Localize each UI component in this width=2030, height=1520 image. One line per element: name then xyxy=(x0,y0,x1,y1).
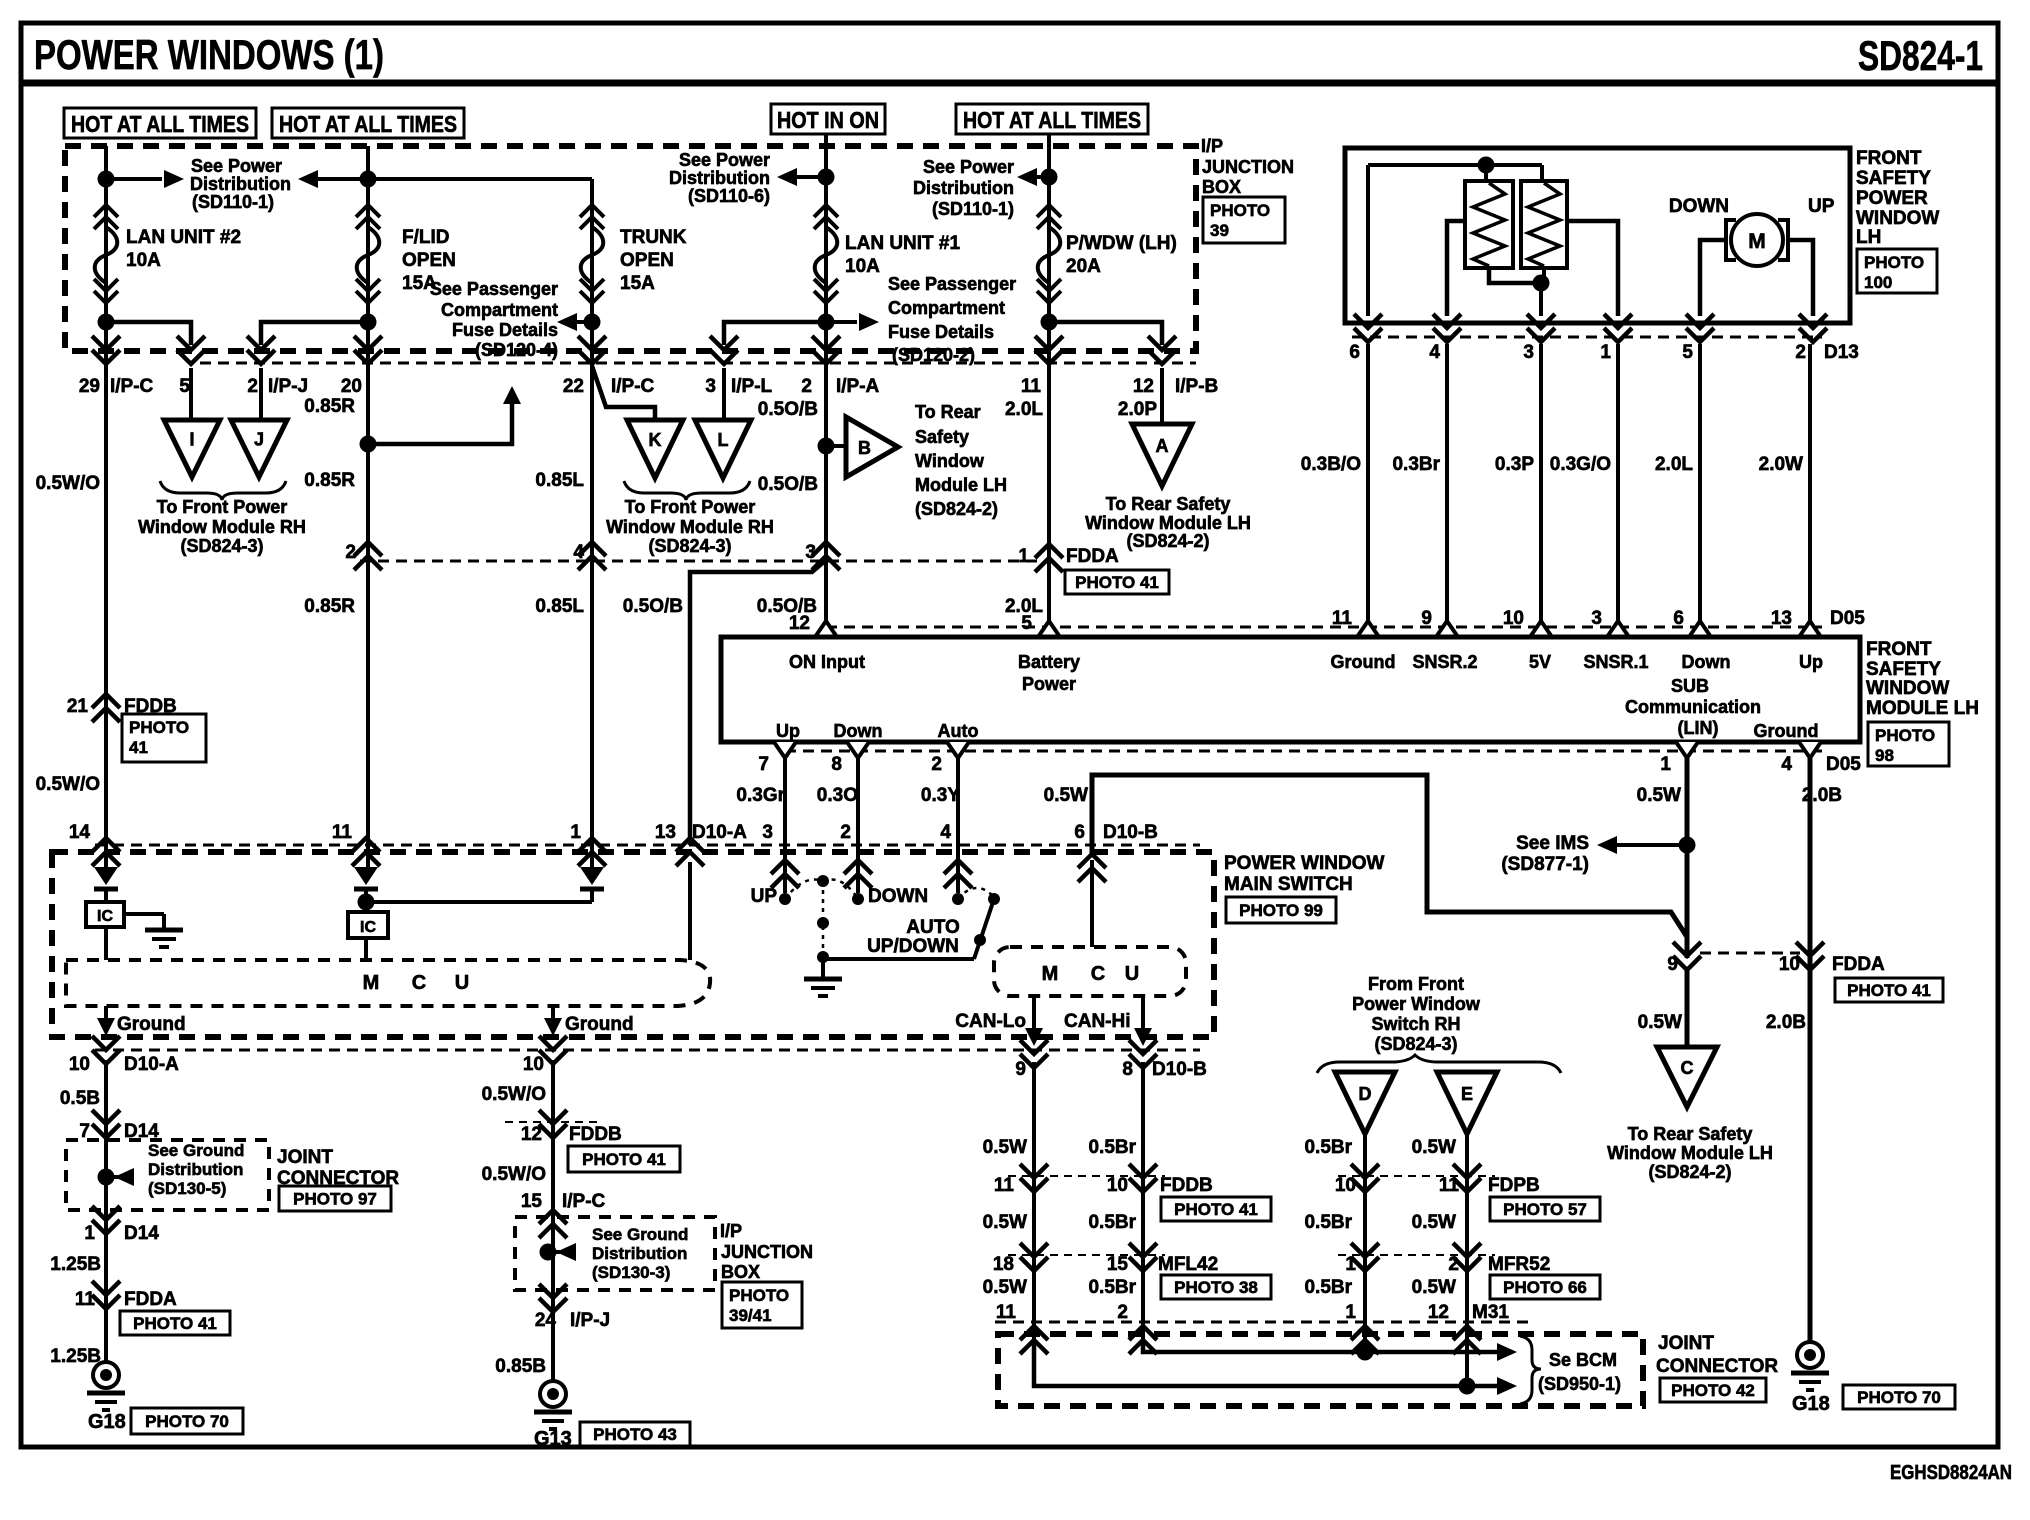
svg-text:Ground: Ground xyxy=(565,1014,634,1035)
svg-text:10: 10 xyxy=(523,1054,544,1075)
tap wire to pin 4 xyxy=(1447,221,1465,316)
svg-text:TRUNK: TRUNK xyxy=(620,227,687,248)
svg-text:L: L xyxy=(718,430,729,450)
svg-text:Module LH: Module LH xyxy=(915,475,1007,495)
ground wire mid xyxy=(551,1006,555,1030)
node IC junction xyxy=(358,894,375,911)
svg-text:10: 10 xyxy=(1335,1175,1356,1196)
wire LAN UNIT #2 feed xyxy=(104,146,108,867)
triangle C connector xyxy=(1657,1047,1717,1107)
svg-text:FDDB: FDDB xyxy=(1160,1175,1213,1196)
switch contacts xyxy=(779,893,791,905)
svg-text:SNSR.2: SNSR.2 xyxy=(1412,652,1477,672)
svg-text:Safety: Safety xyxy=(915,427,969,447)
I/P junction box bottom dashed xyxy=(515,1217,715,1290)
connector pin 20 chevron xyxy=(354,336,382,364)
svg-text:18: 18 xyxy=(993,1254,1014,1275)
auto lever xyxy=(974,899,994,959)
svg-text:Ground: Ground xyxy=(1754,721,1819,741)
svg-text:6: 6 xyxy=(1673,608,1684,629)
svg-text:FDDB: FDDB xyxy=(569,1124,622,1145)
MCU box (main switch) dashed xyxy=(994,947,1186,996)
svg-text:0.3O: 0.3O xyxy=(817,785,858,806)
resistor pack 1 xyxy=(1465,181,1513,268)
svg-text:E: E xyxy=(1461,1084,1473,1104)
svg-text:0.5W: 0.5W xyxy=(983,1212,1027,1233)
svg-text:MFL42: MFL42 xyxy=(1158,1254,1218,1275)
module top pin chevrons xyxy=(815,621,837,637)
svg-text:To Rear Safety: To Rear Safety xyxy=(1106,494,1231,514)
triangle E connector xyxy=(1437,1072,1497,1134)
svg-text:0.5Br: 0.5Br xyxy=(1304,1137,1352,1158)
svg-text:SUB: SUB xyxy=(1671,676,1709,696)
label box HOT AT ALL TIMES #2 xyxy=(272,108,464,138)
svg-text:UP: UP xyxy=(751,886,778,907)
wires module to main switch xyxy=(783,757,787,893)
wire jog to D10-A pin 13 xyxy=(690,560,826,845)
wire branch to pin 12 I/P-B xyxy=(1049,322,1162,345)
svg-text:ON Input: ON Input xyxy=(789,652,865,672)
svg-text:39: 39 xyxy=(1210,221,1229,240)
svg-text:D10-A: D10-A xyxy=(124,1054,179,1075)
svg-text:3: 3 xyxy=(1523,342,1534,363)
triangle B connector (points right) xyxy=(846,417,898,477)
svg-text:3: 3 xyxy=(762,822,773,843)
label box HOT AT ALL TIMES #1 xyxy=(64,108,256,138)
ground wire left xyxy=(104,1006,108,1030)
connector pin 22 I/P-C chevron xyxy=(578,336,606,364)
wire LAN UNIT #1 feed xyxy=(824,134,828,637)
svg-text:15: 15 xyxy=(1107,1254,1129,1275)
node R1 xyxy=(1478,157,1495,174)
svg-text:2: 2 xyxy=(1448,1254,1459,1275)
svg-text:CONNECTOR: CONNECTOR xyxy=(1656,1356,1778,1377)
wire branch to pin 3 I/P-L xyxy=(724,322,826,345)
svg-text:1.25B: 1.25B xyxy=(50,1254,101,1275)
svg-text:0.5W/O: 0.5W/O xyxy=(36,774,100,795)
svg-text:B: B xyxy=(858,438,871,458)
svg-text:D10-A: D10-A xyxy=(692,822,747,843)
svg-text:3: 3 xyxy=(705,376,716,397)
svg-text:11: 11 xyxy=(1439,1175,1460,1196)
svg-text:0.5W: 0.5W xyxy=(1638,1012,1682,1033)
thin dashed line y=1050 xyxy=(95,1049,1200,1052)
svg-text:0.3Gr: 0.3Gr xyxy=(736,785,785,806)
svg-text:PHOTO 66: PHOTO 66 xyxy=(1503,1278,1587,1297)
svg-text:2: 2 xyxy=(247,376,258,397)
svg-text:22: 22 xyxy=(563,376,584,397)
D14 ground distribution dashed box xyxy=(66,1140,269,1210)
D13 pin chevrons xyxy=(1354,314,1382,342)
node ground dist junction xyxy=(540,1244,557,1261)
motor M xyxy=(1731,214,1783,266)
svg-text:See Passenger: See Passenger xyxy=(888,274,1016,294)
svg-text:10: 10 xyxy=(1779,954,1800,975)
wire pin3 to triangle L xyxy=(722,368,726,420)
svg-text:I/P-J: I/P-J xyxy=(268,376,308,397)
PHOTO 43 box xyxy=(580,1422,690,1446)
svg-text:0.5W: 0.5W xyxy=(1637,785,1681,806)
svg-text:2: 2 xyxy=(801,376,812,397)
thin dashed connector line D10-A / D10-B xyxy=(95,844,1200,847)
loop wire pin6 D10-B to FDDA 9 xyxy=(1092,775,1687,937)
svg-text:0.5W/O: 0.5W/O xyxy=(482,1084,546,1105)
pole to ground xyxy=(821,957,825,977)
svg-text:4: 4 xyxy=(1781,754,1792,775)
svg-text:JUNCTION: JUNCTION xyxy=(721,1242,813,1262)
svg-text:21: 21 xyxy=(67,696,89,717)
fuse LAN UNIT #2 10A xyxy=(94,205,118,229)
svg-text:D: D xyxy=(1359,1084,1372,1104)
connector pin 21 FDDB chevron xyxy=(92,694,120,722)
svg-text:WINDOW: WINDOW xyxy=(1856,208,1939,229)
svg-text:0.5W: 0.5W xyxy=(1412,1212,1456,1233)
svg-text:HOT AT ALL TIMES: HOT AT ALL TIMES xyxy=(963,107,1141,133)
wires below diodes xyxy=(104,887,108,902)
connector 15 I/P-C chevron up xyxy=(539,1210,567,1238)
svg-text:0.85R: 0.85R xyxy=(304,396,355,417)
svg-text:0.5W: 0.5W xyxy=(1044,785,1088,806)
svg-text:SD824-1: SD824-1 xyxy=(1858,32,1983,79)
wire to triangle A xyxy=(1160,368,1164,424)
svg-text:CAN-Hi: CAN-Hi xyxy=(1064,1011,1131,1032)
svg-text:I: I xyxy=(189,430,194,450)
earth ground at IC1 xyxy=(124,912,164,916)
svg-text:10: 10 xyxy=(1503,608,1524,629)
svg-text:(LIN): (LIN) xyxy=(1678,718,1719,738)
svg-text:HOT AT ALL TIMES: HOT AT ALL TIMES xyxy=(71,111,249,137)
connector pin 3 I/P-L chevron xyxy=(710,336,738,364)
PHOTO 98 box xyxy=(1868,722,1949,766)
svg-text:PHOTO 41: PHOTO 41 xyxy=(582,1150,666,1169)
svg-text:I/P-C: I/P-C xyxy=(611,376,655,397)
MFL42 / MFR52 connector row xyxy=(1008,1254,1165,1256)
svg-text:G18: G18 xyxy=(88,1411,126,1433)
wire branch pin22 to triangle K xyxy=(592,366,655,420)
svg-text:FDPB: FDPB xyxy=(1488,1175,1540,1196)
svg-text:Window Module LH: Window Module LH xyxy=(1085,513,1251,533)
svg-text:0.5W: 0.5W xyxy=(1412,1277,1456,1298)
svg-text:2.0W: 2.0W xyxy=(1759,454,1803,475)
svg-text:(SD877-1): (SD877-1) xyxy=(1501,854,1589,875)
svg-text:1: 1 xyxy=(1345,1254,1356,1275)
connector 24 I/P-J chevron xyxy=(539,1284,567,1312)
svg-text:BOX: BOX xyxy=(721,1262,760,1282)
svg-text:Communication: Communication xyxy=(1625,697,1761,717)
svg-text:From Front: From Front xyxy=(1368,974,1464,994)
pivot and pole chain xyxy=(817,875,829,887)
PHOTO 100 box xyxy=(1857,249,1937,293)
svg-text:Distribution: Distribution xyxy=(913,178,1014,198)
wires D13 to module D05 xyxy=(1366,344,1370,637)
svg-text:Switch RH: Switch RH xyxy=(1371,1014,1460,1034)
svg-text:0.85B: 0.85B xyxy=(495,1356,546,1377)
diode at pin 14 xyxy=(94,867,118,885)
PHOTO 70 box left xyxy=(131,1408,243,1434)
svg-text:DOWN: DOWN xyxy=(1669,196,1729,217)
tap wire to pin 1 xyxy=(1567,221,1618,316)
svg-text:D05: D05 xyxy=(1826,754,1861,775)
arrow left to See Passenger Compartment Fuse Details SD120-4 xyxy=(577,320,592,324)
D05 top dashed line xyxy=(826,626,1822,629)
svg-text:PHOTO 70: PHOTO 70 xyxy=(1857,1388,1941,1407)
PHOTO 97 box xyxy=(279,1186,391,1211)
svg-text:I/P-B: I/P-B xyxy=(1175,376,1218,397)
svg-text:0.5W: 0.5W xyxy=(983,1137,1027,1158)
svg-text:See IMS: See IMS xyxy=(1516,833,1589,854)
BCM arrow line 1 xyxy=(1143,1345,1497,1352)
svg-text:I/P-L: I/P-L xyxy=(731,376,773,397)
fuse LAN UNIT #1 10A xyxy=(814,205,838,229)
svg-text:(SD824-2): (SD824-2) xyxy=(1648,1162,1731,1182)
svg-text:FDDA: FDDA xyxy=(124,1289,177,1310)
wire CAN-Hi column xyxy=(1141,1062,1145,1345)
svg-text:0.3Br: 0.3Br xyxy=(1392,454,1440,475)
wire TRUNK OPEN feed xyxy=(590,179,594,867)
svg-text:(SD824-3): (SD824-3) xyxy=(180,536,263,556)
D10-B chevrons (up) xyxy=(771,860,799,888)
node E1 junction xyxy=(1041,169,1058,186)
svg-text:1: 1 xyxy=(1660,754,1671,775)
svg-text:JOINT: JOINT xyxy=(277,1147,333,1168)
svg-text:15: 15 xyxy=(521,1191,543,1212)
JOINT CONNECTOR dashed box xyxy=(998,1334,1643,1406)
wire E column xyxy=(1465,1134,1469,1345)
PHOTO 41 box (FDDB mid) xyxy=(568,1146,680,1172)
diode at pin 11 xyxy=(354,867,378,885)
IC box 2 xyxy=(348,912,388,938)
wire branch to pin 2 I/P-J xyxy=(261,322,368,345)
PHOTO 41 box (FDDA right) xyxy=(1835,978,1943,1002)
node B1 junction xyxy=(360,171,377,188)
svg-text:9: 9 xyxy=(1421,608,1432,629)
brace under I J xyxy=(160,481,286,500)
svg-text:5: 5 xyxy=(1682,342,1693,363)
connector 11 FDDA chevron xyxy=(92,1281,120,1309)
PHOTO 42 box xyxy=(1660,1378,1766,1402)
svg-text:Down: Down xyxy=(1682,652,1731,672)
diode at pin 1 xyxy=(580,867,604,885)
svg-text:PHOTO 43: PHOTO 43 xyxy=(593,1425,677,1444)
svg-text:0.5B: 0.5B xyxy=(60,1088,100,1109)
svg-text:See Power: See Power xyxy=(191,156,282,176)
svg-text:Battery: Battery xyxy=(1018,652,1080,672)
2.0B wire module pin4 to G18 xyxy=(1808,757,1813,1341)
brace Se BCM xyxy=(1520,1336,1541,1404)
svg-text:DOWN: DOWN xyxy=(868,886,928,907)
ground G18 left xyxy=(93,1362,119,1388)
svg-text:10: 10 xyxy=(1107,1175,1128,1196)
svg-text:(SD120-4): (SD120-4) xyxy=(475,340,558,360)
svg-text:C: C xyxy=(1681,1058,1694,1078)
arrow right to See Passenger Compartment Fuse Details SD120-2 xyxy=(826,320,857,324)
svg-text:PHOTO: PHOTO xyxy=(1864,253,1924,272)
switch ground xyxy=(804,977,842,982)
svg-text:PHOTO 38: PHOTO 38 xyxy=(1174,1278,1258,1297)
fuse F/LID OPEN 15A xyxy=(356,205,380,229)
svg-text:POWER: POWER xyxy=(1856,188,1928,209)
triangle K connector xyxy=(627,420,683,478)
svg-text:0.85L: 0.85L xyxy=(535,470,584,491)
svg-text:A: A xyxy=(1156,436,1169,456)
svg-text:M: M xyxy=(1042,963,1059,985)
connector pin 11 chevron xyxy=(1035,336,1063,364)
svg-text:0.3B/O: 0.3B/O xyxy=(1301,454,1361,475)
svg-text:K: K xyxy=(649,430,662,450)
svg-text:I/P-J: I/P-J xyxy=(570,1310,610,1331)
node D14 junction xyxy=(98,1169,115,1186)
svg-text:P/WDW (LH): P/WDW (LH) xyxy=(1066,233,1177,254)
svg-text:0.5Br: 0.5Br xyxy=(1088,1137,1136,1158)
svg-text:D13: D13 xyxy=(1824,342,1859,363)
node D1 junction xyxy=(818,169,835,186)
svg-text:MAIN SWITCH: MAIN SWITCH xyxy=(1224,874,1353,895)
svg-text:2.0L: 2.0L xyxy=(1005,399,1043,420)
svg-text:PHOTO: PHOTO xyxy=(129,718,189,737)
svg-text:UP/DOWN: UP/DOWN xyxy=(867,936,959,957)
connector pin 4 chevron xyxy=(578,542,606,570)
svg-text:I/P-C: I/P-C xyxy=(562,1191,606,1212)
svg-text:1: 1 xyxy=(84,1223,95,1244)
connector line (module side) thin dashed xyxy=(360,560,1042,563)
svg-text:HOT IN ON: HOT IN ON xyxy=(777,107,879,133)
svg-text:PHOTO 41: PHOTO 41 xyxy=(1847,981,1931,1000)
svg-text:11: 11 xyxy=(994,1175,1015,1196)
svg-text:Down: Down xyxy=(834,721,883,741)
svg-text:Distribution: Distribution xyxy=(148,1160,243,1179)
svg-text:CAN-Lo: CAN-Lo xyxy=(955,1011,1026,1032)
svg-text:IC: IC xyxy=(97,908,113,925)
svg-text:To Rear Safety: To Rear Safety xyxy=(1628,1124,1753,1144)
svg-text:FRONT: FRONT xyxy=(1856,148,1922,169)
svg-text:14: 14 xyxy=(69,822,91,843)
svg-text:LAN UNIT #1: LAN UNIT #1 xyxy=(845,233,961,254)
FDDA connector chevrons 9 and 10 xyxy=(1673,942,1701,970)
svg-text:(SD824-3): (SD824-3) xyxy=(1374,1034,1457,1054)
svg-text:I/P-A: I/P-A xyxy=(836,376,880,397)
svg-text:LAN UNIT #2: LAN UNIT #2 xyxy=(126,227,241,248)
svg-text:0.85R: 0.85R xyxy=(304,596,355,617)
connector 12 FDDB chevron xyxy=(539,1110,567,1138)
svg-text:4: 4 xyxy=(1429,342,1440,363)
arrow left to See Power Distribution SD110-1 xyxy=(1037,175,1049,179)
wire to TRUNK fuse top xyxy=(368,177,592,181)
PHOTO 41 box (FDDB wire A) xyxy=(122,714,206,762)
svg-text:U: U xyxy=(455,972,469,994)
svg-text:Window Module RH: Window Module RH xyxy=(606,517,774,537)
POWER WINDOW MAIN SWITCH dashed box xyxy=(52,852,1214,1037)
svg-text:Compartment: Compartment xyxy=(441,300,558,320)
svg-text:1: 1 xyxy=(1345,1302,1356,1323)
svg-text:20A: 20A xyxy=(1066,256,1101,277)
connector 1 D14 chevron xyxy=(92,1206,120,1234)
front safety power window LH box xyxy=(1345,148,1850,323)
svg-text:8: 8 xyxy=(831,754,842,775)
svg-text:0.5Br: 0.5Br xyxy=(1088,1212,1136,1233)
svg-text:I/P: I/P xyxy=(720,1221,742,1241)
thin dashed above joint connector xyxy=(995,1321,1530,1324)
svg-text:Se BCM: Se BCM xyxy=(1549,1350,1617,1370)
svg-text:39/41: 39/41 xyxy=(729,1306,772,1325)
svg-text:12: 12 xyxy=(521,1124,542,1145)
svg-text:FDDA: FDDA xyxy=(1832,954,1885,975)
svg-text:G18: G18 xyxy=(1792,1393,1830,1415)
svg-text:1: 1 xyxy=(1018,546,1029,567)
svg-text:29: 29 xyxy=(79,376,100,397)
FDDB / FDPB connector row xyxy=(1008,1175,1165,1177)
LIN wire module pin1 down xyxy=(1685,757,1690,958)
svg-text:Power Window: Power Window xyxy=(1352,994,1481,1014)
svg-text:24: 24 xyxy=(535,1310,557,1331)
svg-text:See Passenger: See Passenger xyxy=(430,279,558,299)
wire CAN-Lo column xyxy=(1032,1062,1036,1345)
svg-text:2.0B: 2.0B xyxy=(1766,1012,1806,1033)
connector pin 5 chevron xyxy=(177,336,205,364)
D13 dashed line xyxy=(1352,336,1822,339)
MCU box (left) dashed xyxy=(66,960,710,1006)
svg-text:(SD950-1): (SD950-1) xyxy=(1538,1374,1621,1394)
front safety window module LH box xyxy=(721,637,1860,742)
connector pin 3 chevron (lower) xyxy=(812,542,840,570)
svg-text:(SD824-3): (SD824-3) xyxy=(648,536,731,556)
svg-text:Auto: Auto xyxy=(938,721,979,741)
PHOTO 57 box xyxy=(1490,1197,1600,1221)
svg-text:0.5W/O: 0.5W/O xyxy=(482,1164,546,1185)
node E2 junction xyxy=(1041,314,1058,331)
svg-text:(SD824-2): (SD824-2) xyxy=(1126,531,1209,551)
svg-text:C: C xyxy=(412,972,426,994)
svg-text:PHOTO 42: PHOTO 42 xyxy=(1671,1381,1755,1400)
svg-text:15A: 15A xyxy=(620,273,655,294)
svg-text:0.5O/B: 0.5O/B xyxy=(758,474,818,495)
svg-text:9: 9 xyxy=(1667,954,1678,975)
svg-text:I/P-C: I/P-C xyxy=(110,376,154,397)
ground G18 right xyxy=(1797,1342,1823,1368)
PHOTO 38 box xyxy=(1161,1275,1271,1299)
svg-text:98: 98 xyxy=(1875,746,1894,765)
node A1 junction xyxy=(98,171,115,188)
svg-text:To Rear: To Rear xyxy=(915,402,981,422)
wire P/WDW (LH) feed xyxy=(1047,134,1051,637)
svg-text:UP: UP xyxy=(1808,196,1835,217)
svg-text:(SD130-3): (SD130-3) xyxy=(592,1263,670,1282)
svg-text:U: U xyxy=(1125,963,1139,985)
svg-text:BOX: BOX xyxy=(1202,177,1241,197)
arrow left to See Power Distribution xyxy=(318,177,368,181)
node B3 junction with up-arrow branch xyxy=(360,436,377,453)
fuse TRUNK OPEN 15A xyxy=(580,205,604,229)
svg-text:Fuse Details: Fuse Details xyxy=(888,322,994,342)
svg-text:See Ground: See Ground xyxy=(148,1141,244,1160)
svg-text:POWER WINDOWS (1): POWER WINDOWS (1) xyxy=(34,31,384,78)
svg-text:0.5W: 0.5W xyxy=(1412,1137,1456,1158)
BCM arrow line 2 xyxy=(1034,1345,1497,1386)
svg-text:2.0P: 2.0P xyxy=(1118,399,1157,420)
PHOTO 39 box xyxy=(1203,197,1285,243)
svg-text:Window: Window xyxy=(915,451,985,471)
brace under K L xyxy=(624,481,750,500)
svg-text:PHOTO 41: PHOTO 41 xyxy=(1075,573,1159,592)
node D3 junction to triangle B xyxy=(818,438,835,455)
svg-text:JOINT: JOINT xyxy=(1658,1333,1714,1354)
svg-text:Up: Up xyxy=(1799,652,1823,672)
wire F/LID OPEN feed xyxy=(366,146,370,867)
svg-text:OPEN: OPEN xyxy=(402,250,456,271)
svg-text:PHOTO: PHOTO xyxy=(1875,726,1935,745)
svg-text:J: J xyxy=(254,430,264,450)
svg-text:100: 100 xyxy=(1864,273,1892,292)
svg-text:(SD110-1): (SD110-1) xyxy=(932,199,1014,219)
